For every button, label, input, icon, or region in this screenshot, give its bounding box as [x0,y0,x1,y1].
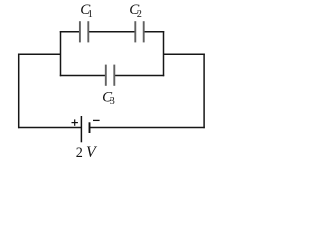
capacitor C3 plates [106,65,115,86]
label C1 [80,2,93,20]
capacitor C2 plates [135,21,143,42]
battery B1 negative plate (short) [89,122,91,133]
wire top branch right segment [144,31,164,33]
label 2 V (battery voltage) [76,144,98,161]
wire outer right vertical [203,54,205,129]
wire top branch middle segment (between C1 and C2) [89,31,135,33]
wire top branch left segment [60,31,79,33]
battery minus sign [93,119,100,121]
wire bottom branch right segment [115,75,164,77]
wire right stub (mid row) [164,53,205,55]
svg-text:V: V [86,144,98,161]
wire inner rectangle right vertical [163,31,165,76]
svg-text:2: 2 [76,145,83,161]
svg-text:1: 1 [88,9,93,20]
wire left stub (mid row, battery loop to inner rectangle) [19,53,60,55]
wire inner rectangle left vertical [60,31,62,76]
svg-text:3: 3 [110,96,115,107]
capacitor C1 plates [80,21,88,42]
wire bottom right segment [90,127,205,129]
label C3 [102,89,115,107]
battery B1 positive plate (long) [80,116,82,142]
wire outer left vertical [18,54,20,129]
wire bottom branch left segment [60,75,105,77]
label C2 [129,2,142,20]
battery plus sign [72,119,78,125]
svg-text:2: 2 [137,9,142,20]
wire bottom left segment [18,127,81,129]
